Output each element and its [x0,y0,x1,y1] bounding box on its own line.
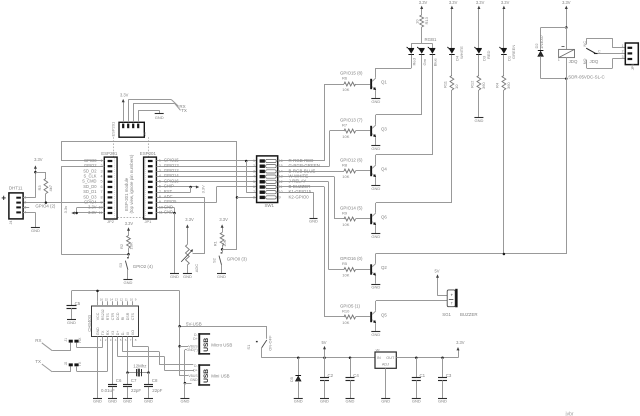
svg-text:8: 8 [159,195,161,199]
svg-text:5V-USB: 5V-USB [186,322,202,327]
svg-text:JDQ: JDQ [569,59,578,64]
svg-text:K2-GPIO0: K2-GPIO0 [289,194,310,199]
svg-text:6: 6 [253,185,255,189]
svg-text:D+: D+ [116,330,120,335]
3.3V arrow at D4 [451,8,453,48]
svg-text:1: 1 [101,159,103,163]
capacitor C1 [415,357,418,360]
ground at C6 [108,398,117,400]
svg-text:C6: C6 [116,378,122,383]
resistor R2 10K pullup [127,236,131,249]
LED RGB1 green element [419,49,425,54]
wire Q4 emitter to ground [375,177,377,185]
CH340G pin 12 DCD [117,301,119,306]
ground at C4 [346,398,355,400]
ground at S3 [123,279,132,281]
connector Mini USB [198,364,200,385]
svg-text:7: 7 [253,190,255,194]
svg-text:15: 15 [105,298,109,302]
svg-text:GPIO12 (6): GPIO12 (6) [340,157,363,162]
svg-text:11: 11 [99,211,103,215]
svg-text:J2: J2 [64,362,68,366]
3.3V arrow at D1 [503,8,505,48]
CH340G pin 6 D- [122,337,124,342]
wire D1/R4 tap onto relay drive net [503,90,505,254]
svg-text:Q6: Q6 [381,215,387,220]
wire green cathode to Q3 [421,55,423,115]
svg-text:3.3V: 3.3V [185,217,194,222]
wire to pullup R3 [35,172,46,174]
wire crystal to C8 [148,373,150,384]
ground at K1 [310,218,318,220]
svg-text:GND: GND [164,210,173,215]
3.3V arrow at R2 [128,230,130,236]
svg-text:R8: R8 [342,163,348,168]
switch S3 GPIO2 [128,254,130,257]
svg-text:10K: 10K [342,174,349,179]
ground at D5 [294,398,303,400]
LED D4 WHITE [449,49,455,54]
ground at Q4 [371,185,380,187]
wire D3/R12 to ground [478,90,480,117]
svg-text:16: 16 [100,298,104,302]
svg-text:TX: TX [181,108,187,113]
transistor Q4 [370,166,372,176]
svg-text:(top view, ignore pin numbers): (top view, ignore pin numbers) [129,154,134,213]
svg-text:ADC: ADC [194,264,199,273]
svg-text:CTS: CTS [131,313,135,321]
3.3V arrow at R1 [222,227,224,233]
svg-text:6: 6 [159,185,161,189]
svg-text:J4: J4 [9,221,13,225]
svg-text:Q3: Q3 [381,127,387,132]
svg-text:GND: GND [371,332,380,337]
svg-text:C5: C5 [75,301,81,306]
svg-text:GND: GND [123,399,132,404]
svg-text:5: 5 [101,180,103,184]
LED RGB1 blue element [430,49,436,54]
svg-text:T: T [451,301,453,305]
svg-text:JP2: JP2 [107,219,115,224]
wire Q6 collector [375,203,377,213]
svg-text:GPIO2 (4): GPIO2 (4) [133,264,154,269]
svg-text:GND: GND [144,399,153,404]
svg-text:RED: RED [486,50,491,59]
svg-text:TX: TX [101,330,105,335]
wire DHT11 pin1 to 3.3V [23,197,35,199]
svg-text:3.3V: 3.3V [219,217,228,222]
svg-text:RI: RI [121,317,125,321]
svg-text:5V: 5V [434,269,439,274]
svg-text:JP3: JP3 [631,64,635,70]
svg-text:7: 7 [101,190,103,194]
svg-text:GPIO5 (1): GPIO5 (1) [340,303,361,308]
wire J3 pin4 to GND [138,110,140,122]
wire Q1 collector [375,68,377,78]
wire 5V to buzzer plus [438,295,448,297]
crystal Y1 12Mhz [128,372,149,374]
wire Q2 emitter to ground [375,276,377,284]
svg-text:Blue: Blue [433,58,438,67]
svg-text:Red: Red [412,58,417,65]
svg-text:GPIO4 (2): GPIO4 (2) [35,203,56,208]
svg-text:2: 2 [101,164,103,168]
svg-text:D+: D+ [193,337,197,341]
svg-text:5: 5 [253,180,255,184]
svg-text:3: 3 [253,169,255,173]
wire GPIO0 net: JP2 pin1 around top to SW1 [61,160,104,162]
DIP switch SW1 [257,156,278,203]
svg-text:22pF: 22pF [131,388,141,393]
ground at Q3 [371,145,380,147]
switch S2 GPIO0 [222,249,224,252]
svg-text:XI: XI [126,332,130,335]
svg-text:1N4007: 1N4007 [539,34,544,49]
svg-text:GND: GND [108,399,117,404]
svg-text:SG1: SG1 [442,312,451,317]
svg-text:360: 360 [481,82,486,89]
svg-text:GND: GND [371,146,380,151]
svg-text:12: 12 [120,298,124,302]
svg-text:10: 10 [159,205,163,209]
wire Q1 emitter to ground [375,90,377,98]
svg-text:S1: S1 [246,344,251,350]
capacitor C5 [71,291,73,305]
wire JP1 pin3 GPIO12 to SW1 row 3 [156,171,256,173]
wire crystal to C7 [127,373,129,384]
junction K2 net at SW1 row8 [236,196,239,199]
svg-text:RX: RX [78,337,82,343]
wire to flyback diode D2 [541,27,567,29]
svg-text:GND: GND [412,399,421,404]
svg-text:1: 1 [622,44,624,48]
ground at Q2 [371,284,380,286]
3.3V supply arrow at J3 pin1 [123,102,125,123]
wire C to JP3 pin2 [598,53,626,55]
svg-text:ESP201: ESP201 [101,151,118,156]
transistor Q6 [370,214,372,224]
connector JP3 [625,43,638,65]
wire CH340 D- to mini USB [122,341,124,352]
svg-text:GPIO14 (5): GPIO14 (5) [340,205,363,210]
svg-text:GPIO13 (7): GPIO13 (7) [340,117,363,122]
svg-text:ESP201: ESP201 [140,151,157,156]
svg-text:3.3V: 3.3V [419,0,428,5]
capacitor C7 22pF [123,384,132,386]
CH340G pin 3 RX [107,337,109,342]
svg-text:Q2: Q2 [381,265,387,270]
wire GPIO15 branch down to SW1 row7 [246,161,248,192]
ground at Q5 [371,331,380,333]
svg-text:R1: R1 [213,240,218,246]
wire JP1 pin4 GPIO14 to SW1 row 4 [156,176,256,178]
wire V3 to C6 [112,341,114,384]
ground at regulator ADJ [381,398,390,400]
svg-text:GND: GND [371,186,380,191]
CH340G pin 14 RTS [107,301,109,306]
5V-USB rail [180,326,267,328]
ground at S2 [217,273,226,275]
wire ADC: JP1 pin8 to potentiometer wiper [156,197,205,199]
svg-text:J1: J1 [64,338,68,342]
svg-text:22pF: 22pF [152,388,162,393]
transistor Q5 [370,312,372,322]
svg-text:9: 9 [279,195,281,199]
junction GPIO15 net to K1 row [245,160,248,163]
svg-text:C4: C4 [353,373,359,378]
svg-text:3.3V: 3.3V [120,92,129,97]
svg-text:ADJ: ADJ [382,363,389,367]
svg-text:TX: TX [78,361,82,366]
ground at DHT11 [31,227,40,229]
svg-text:2: 2 [253,164,255,168]
svg-text:GND: GND [170,274,179,279]
CH340G pin 8 XO [132,337,134,342]
wire DHT11 pin3 stub [23,207,29,209]
svg-text:Q1: Q1 [381,80,387,85]
diode D2 1N4007 [538,50,544,52]
svg-text:R11: R11 [443,80,448,88]
relay coil JDQ [566,28,568,50]
3.3V arrow at regulator output [458,352,460,358]
junction USB ground bus [184,382,187,385]
svg-text:Q4: Q4 [381,167,387,172]
svg-text:8: 8 [253,195,255,199]
svg-text:DCD: DCD [116,312,120,320]
svg-text:2: 2 [24,201,26,205]
svg-text:Grn: Grn [422,59,427,66]
svg-text:R9: R9 [342,211,348,216]
wire CH340 D+ to mini USB [117,341,119,357]
junction at JP2 3.3v [75,212,78,215]
svg-text:1: 1 [159,159,161,163]
wire CH340 pin1 GND down [97,341,99,398]
wire CHIP (CH_PD) to 3.3V arrow [156,186,196,188]
svg-text:5: 5 [159,179,161,183]
switch S1 ON-OFF [266,326,268,339]
3.3V arrow at potentiometer [187,227,189,244]
wire ADJ to ground [385,368,387,398]
svg-text:GND: GND [123,280,132,285]
wire NC to JP3 pin1 [587,38,612,40]
svg-text:GND: GND [309,219,318,224]
CH340G pin 7 XI [127,337,129,342]
svg-text:6: 6 [101,185,103,189]
3.3V output rail [396,357,458,359]
wire mini VBUS [180,375,189,377]
svg-text:GND(*): GND(*) [186,348,197,352]
svg-text:3.3V: 3.3V [449,0,458,5]
svg-text:IN: IN [377,356,381,360]
wire J2 to CH340 RX [76,366,78,371]
svg-text:10K: 10K [342,222,349,227]
svg-text:R5: R5 [342,261,348,266]
svg-text:9: 9 [101,201,103,205]
junction relay coil bottom [565,77,568,80]
resistor R4 360 [502,76,506,91]
CH340G pin 9 CTS [132,301,134,306]
svg-text:GPIO16 (0): GPIO16 (0) [340,256,363,261]
svg-text:USB: USB [203,338,210,352]
capacitor C6 0.01uF [108,384,117,386]
3.3V arrow at relay [566,8,568,27]
svg-text:GND: GND [381,399,390,404]
ground at USB shells [180,398,189,400]
svg-text:DSR: DSR [126,312,130,320]
svg-text:R7: R7 [342,123,348,128]
relay contact NO [586,60,588,69]
relay contact NC [586,38,588,44]
wire XO to crystal [132,341,134,347]
svg-text:2: 2 [159,164,161,168]
wire red cathode to Q1 [411,55,413,68]
ground at C8 [144,398,153,400]
CH340G pin 5 D+ [117,337,119,342]
svg-text:D+: D+ [193,368,197,372]
svg-text:10K: 10K [342,87,349,92]
ground at C3 [438,398,447,400]
RGB anode bracket [411,43,432,45]
wire J3 pin3 to TX [133,103,135,122]
svg-text:3: 3 [159,169,161,173]
5V rail [262,357,376,359]
ground at C7 [123,398,132,400]
capacitor C4 [349,357,352,360]
svg-text:C8: C8 [152,378,158,383]
svg-text:R10: R10 [342,309,350,314]
wire SW1 row7 K1 to GND [278,192,314,194]
3.3v left arrow at JP2 [71,212,74,215]
svg-text:GND: GND [294,399,303,404]
svg-text:10K: 10K [342,273,349,278]
ground at C1 [412,398,421,400]
svg-text:4k7: 4k7 [48,184,53,191]
junction micro VBUS [178,345,181,348]
jumper J1 [69,340,73,343]
svg-text:Micro USB: Micro USB [211,343,232,348]
wire S3 to GND [127,270,129,279]
wire SW1 row3 to Q4 (blue) [278,171,344,173]
wire JP1 pin2 GPIO13 to SW1 row 2 [156,166,256,168]
LED D3 RED [476,49,482,54]
wire relay drive down to Q2 [566,79,568,254]
svg-text:S3: S3 [118,262,123,268]
junction DHT 3.3V / R3 [34,171,37,174]
wire pot bottom to GND [187,265,189,273]
svg-text:8: 8 [101,195,103,199]
svg-text:3.3V: 3.3V [476,0,485,5]
svg-text:GND: GND [190,378,198,382]
ground at J3 [155,113,164,115]
buzzer SG1 [447,290,455,307]
svg-text:10K: 10K [128,242,133,249]
ground at C2 [320,398,329,400]
svg-text:BUZZER: BUZZER [460,312,478,317]
svg-text:VCC: VCC [96,312,100,320]
CH340G pin 10 DSR [127,301,129,306]
wire RX to jumper J1 [42,343,52,351]
svg-text:GND: GND [438,399,447,404]
svg-text:10: 10 [415,19,420,24]
svg-text:R12: R12 [470,80,475,88]
ground at R12 [474,117,483,119]
svg-text:Mini USB: Mini USB [211,374,229,379]
resistor R3 4k7 [44,179,48,194]
wire Q3 collector [375,115,377,125]
svg-text:V3: V3 [111,331,115,335]
svg-text:9: 9 [159,200,161,204]
svg-text:RX: RX [35,338,41,343]
svg-text:GND: GND [346,399,355,404]
svg-text:14: 14 [110,298,114,302]
wire J1 to CH340 TX [76,343,78,348]
svg-text:J3: J3 [143,132,147,136]
CH340G pin 4 V3 [112,337,114,342]
svg-text:SDR-05VDC-SL-C: SDR-05VDC-SL-C [568,75,604,80]
wire Q5 collector [375,301,377,311]
connector J3 (ESP201 program header) [119,122,144,137]
svg-text:GND: GND [67,320,76,325]
svg-text:11: 11 [159,211,163,215]
svg-text:RGB1: RGB1 [425,37,438,42]
wire S2 to GND [221,265,223,273]
resistor R13 10 [420,15,424,27]
svg-text:RTS: RTS [106,313,110,321]
svg-text:3: 3 [622,55,624,59]
svg-text:GND: GND [155,115,164,120]
svg-text:XO: XO [131,330,135,335]
svg-text:12Mhz: 12Mhz [133,363,146,368]
svg-text:13: 13 [115,298,119,302]
svg-text:7: 7 [159,190,161,194]
svg-text:R2: R2 [119,243,124,249]
svg-text:10K: 10K [342,320,349,325]
svg-text:GND: GND [93,399,102,404]
svg-text:RX: RX [106,330,110,336]
svg-text:360: 360 [506,82,511,89]
svg-text:+: + [1,193,6,202]
wire JP2 pins 10/11 to 3.3v arrow [77,207,105,209]
svg-text:R4: R4 [495,82,500,88]
relay switch blade [586,48,595,53]
svg-text:CTR: CTR [111,313,115,321]
svg-text:GND: GND [180,399,189,404]
transistor Q2 [370,264,372,274]
connector Micro USB [198,333,200,354]
svg-text:CH340G: CH340G [87,314,92,332]
svg-text:10: 10 [130,298,134,302]
svg-text:C1: C1 [420,373,426,378]
svg-text:3.3V: 3.3V [501,0,510,5]
resistor R11 10 [450,76,454,91]
svg-text:3.3V: 3.3V [125,221,134,226]
wire J3 pin2 to RX [128,100,130,123]
wire JP1 pin1 GPIO15 to SW1 row 1 [156,160,256,162]
CH340G pin 13 CTR [112,301,114,306]
svg-text:GND: GND [371,285,380,290]
svg-text:3.3V: 3.3V [456,340,465,345]
svg-text:Q5: Q5 [381,313,387,318]
wire NO to JP3 pin3 [587,68,612,70]
svg-text:GND: GND [96,327,100,335]
svg-text:10K: 10K [342,134,349,139]
diode D5 reverse protection [297,357,300,360]
wire DHT11 pin4 to GND [23,212,35,214]
junction R1/S2/K2 net [221,248,224,251]
resistor R12 360 [477,76,481,91]
junction relay coil top / D2 [565,26,568,29]
svg-text:NC: NC [583,41,587,47]
